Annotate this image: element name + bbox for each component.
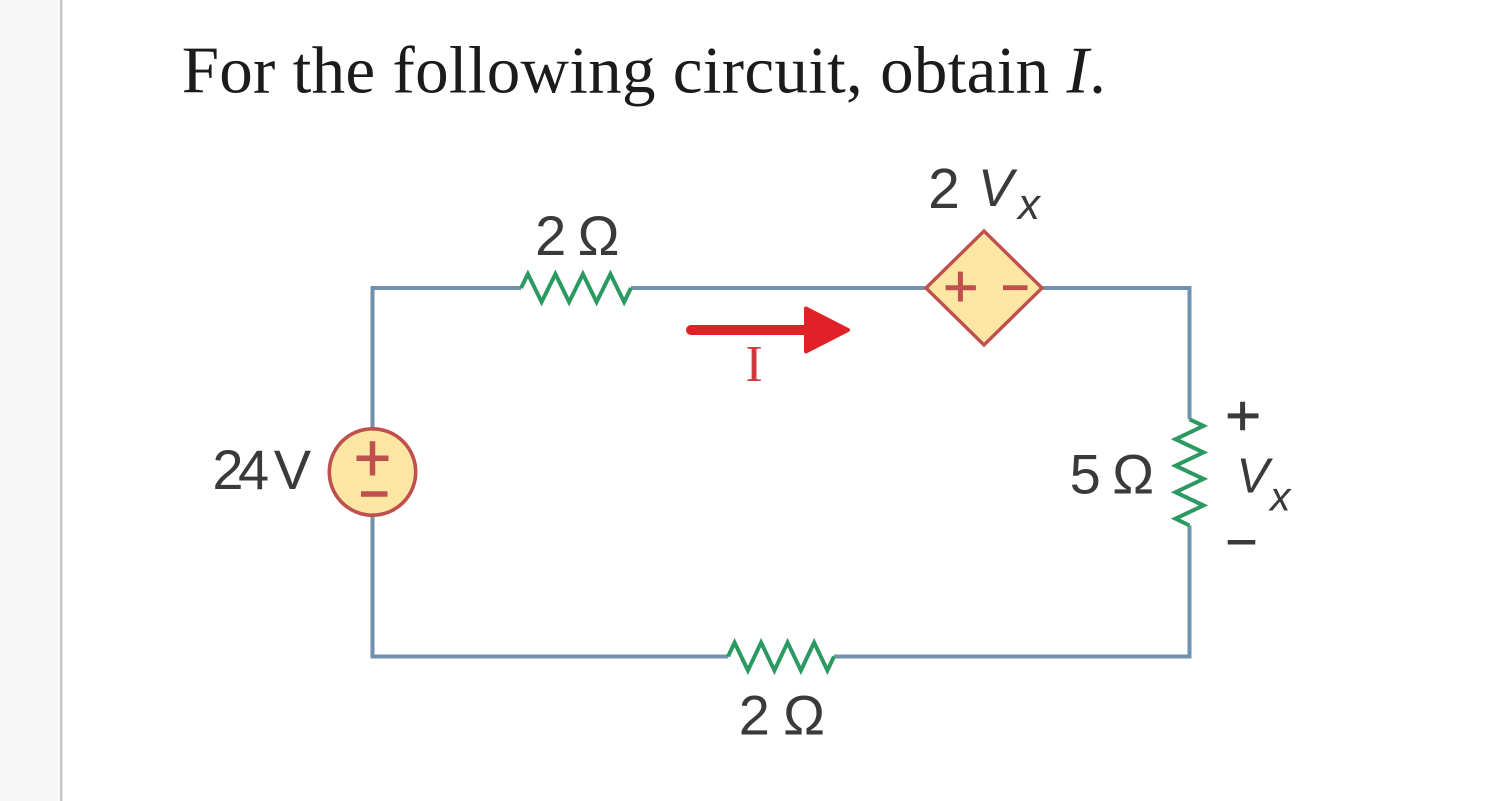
svg-text:Ω: Ω — [1112, 443, 1154, 506]
dependent source minus sign — [1003, 285, 1028, 290]
svg-text:Ω: Ω — [578, 204, 620, 267]
dependent source plus sign — [946, 272, 976, 302]
svg-text:For the following circuit, obt: For the following circuit, obtain I. — [182, 34, 1106, 108]
Vx polarity minus sign right — [1228, 540, 1256, 545]
wire bottom-right segment — [834, 655, 1192, 659]
svg-text:I: I — [745, 336, 762, 393]
svg-text:x: x — [1016, 180, 1042, 229]
left divider line — [60, 0, 63, 801]
svg-text:24 V: 24 V — [212, 438, 311, 501]
wire left lower segment — [371, 515, 375, 659]
wire left upper segment — [371, 286, 375, 428]
dependent source 2Vx diamond body — [926, 231, 1042, 345]
resistor 2ohm top zigzag — [521, 274, 631, 302]
wire right lower segment — [1188, 526, 1192, 659]
svg-text:2: 2 — [928, 157, 960, 221]
voltage source minus sign — [361, 491, 388, 497]
svg-text:x: x — [1268, 474, 1292, 520]
dependent source label 2 Vx — [928, 157, 1042, 229]
svg-text:V: V — [978, 159, 1018, 218]
Vx polarity plus sign right — [1228, 402, 1259, 431]
svg-text:V: V — [1237, 450, 1274, 504]
current arrow I head — [806, 309, 848, 352]
svg-text:Ω: Ω — [783, 684, 825, 747]
Vx voltage label right — [1237, 450, 1293, 520]
wire bottom-left segment — [371, 655, 729, 659]
svg-text:2: 2 — [739, 684, 770, 747]
resistor 2ohm bottom zigzag — [728, 643, 834, 671]
wire right upper segment — [1188, 286, 1192, 419]
svg-text:2: 2 — [535, 204, 566, 267]
resistor 5ohm right zigzag — [1176, 419, 1204, 525]
voltage source 24V circle body — [329, 429, 415, 515]
svg-text:5: 5 — [1070, 443, 1101, 506]
current arrow I shaft — [691, 325, 810, 335]
voltage source plus sign — [357, 441, 389, 475]
wire top-left segment — [373, 286, 522, 290]
wire top-middle segment — [631, 286, 928, 290]
left margin strip — [0, 0, 59, 801]
wire top-right segment — [1040, 286, 1190, 290]
